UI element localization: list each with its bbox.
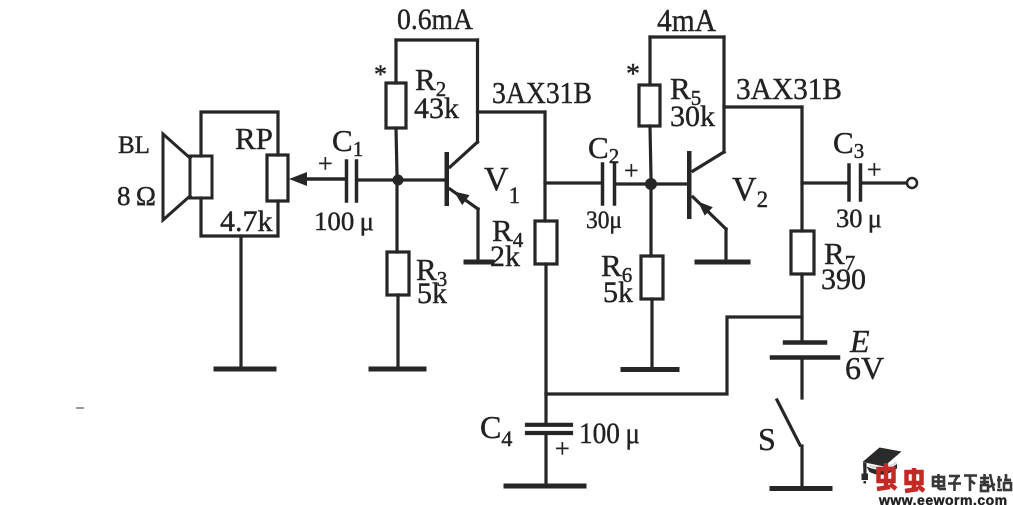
transistor V2 [687, 37, 768, 259]
svg-text:RP: RP [235, 121, 273, 156]
ground under switch [772, 486, 830, 491]
svg-text:V2: V2 [732, 171, 768, 212]
svg-text:V1: V1 [484, 161, 520, 208]
svg-text:C1: C1 [332, 123, 363, 161]
svg-text:6V: 6V [845, 350, 884, 386]
ground at V1 emitter [466, 260, 492, 265]
char xia [964, 474, 977, 477]
potentiometer RP [220, 121, 288, 238]
svg-text:5k: 5k [417, 277, 447, 310]
wire V1 collector to R4/C2 branch [478, 112, 603, 221]
speaker BL [117, 132, 212, 220]
svg-text:8 Ω: 8 Ω [117, 181, 156, 211]
svg-text:+: + [555, 434, 570, 463]
resistor R6 [601, 190, 663, 368]
wire C4 junction to battery junction [546, 317, 802, 394]
wire to capacitor C3 [802, 181, 848, 184]
svg-text:+: + [318, 149, 333, 178]
transistor V1 [445, 40, 521, 261]
svg-text:100 μ: 100 μ [579, 417, 640, 450]
svg-text:*: * [374, 60, 387, 89]
resistor R5 [639, 37, 715, 178]
resistor R4 [490, 213, 557, 394]
wiper arrow of RP [289, 172, 346, 186]
svg-text:4.7k: 4.7k [220, 205, 273, 238]
char zhan [998, 476, 1001, 488]
svg-text:BL: BL [118, 132, 150, 159]
svg-text:C3: C3 [833, 125, 864, 163]
wire V2 collector to output chain [724, 107, 802, 231]
capacitor C3 [833, 125, 882, 233]
svg-text:5k: 5k [603, 276, 633, 309]
svg-text:30k: 30k [670, 100, 715, 133]
svg-text:43k: 43k [414, 92, 459, 125]
wire top rail right [650, 35, 724, 38]
svg-text:*: * [626, 59, 640, 90]
resistor R3 [387, 185, 447, 368]
node B (V2 base node) [645, 178, 657, 190]
ground under RP [216, 236, 274, 369]
capacitor C1 [314, 123, 374, 236]
svg-text:C2: C2 [588, 130, 619, 168]
char zai [980, 477, 989, 480]
ground under R6 [623, 367, 677, 372]
red character chong 2 [905, 468, 924, 491]
capacitor C4 [480, 394, 640, 484]
resistor R2 [386, 40, 459, 175]
wire C1 to V1 base [357, 178, 444, 181]
ground under C4 [506, 484, 584, 489]
svg-text:30μ: 30μ [586, 207, 622, 234]
svg-text:3AX31B: 3AX31B [492, 75, 592, 110]
svg-text:C4: C4 [480, 409, 512, 451]
gray site name characters [933, 474, 1011, 491]
wire speaker to RP loop [201, 112, 278, 236]
svg-text:+: + [624, 156, 639, 185]
watermark logo [862, 448, 1012, 505]
red character chong 1 [877, 463, 896, 489]
wire C2 to V2 base [615, 182, 687, 185]
ground at V2 emitter [697, 260, 748, 265]
resistor R7 [791, 231, 866, 340]
svg-text:S: S [758, 421, 776, 457]
svg-text:4mA: 4mA [657, 2, 716, 38]
battery E [772, 323, 884, 398]
node A (V1 base node) [393, 175, 404, 186]
switch S [758, 400, 802, 488]
char dian [933, 477, 944, 486]
output terminal [907, 178, 917, 188]
char zi [949, 475, 960, 478]
wire C3 to output terminal [861, 181, 906, 184]
stray scan mark [77, 407, 83, 409]
svg-text:100 μ: 100 μ [314, 207, 374, 236]
svg-text:+: + [867, 155, 882, 184]
svg-text:390: 390 [821, 263, 866, 296]
wire top rail left [396, 38, 478, 41]
svg-text:0.6mA: 0.6mA [397, 3, 473, 36]
capacitor C2 [586, 130, 639, 234]
graduation cap [862, 448, 902, 484]
ground under R3 [371, 367, 424, 372]
svg-text:30 μ: 30 μ [836, 204, 882, 233]
svg-text:www.eeworm.com: www.eeworm.com [878, 492, 1008, 505]
svg-text:2k: 2k [490, 240, 520, 273]
svg-text:3AX31B: 3AX31B [736, 71, 842, 106]
